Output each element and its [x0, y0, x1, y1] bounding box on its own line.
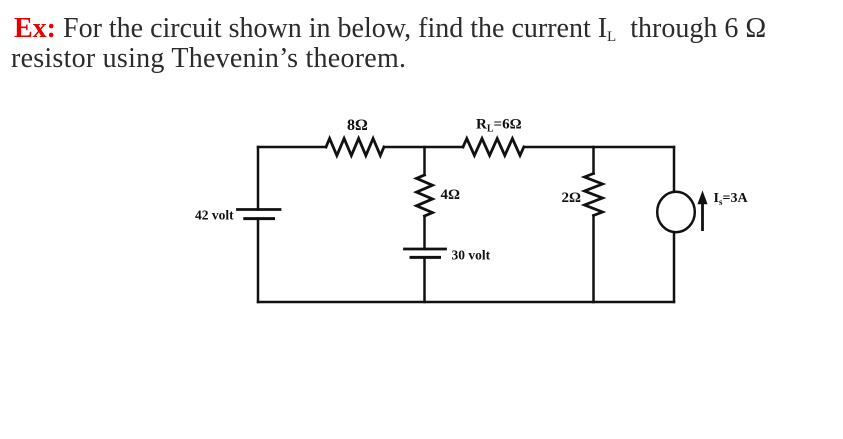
- svg-text:8Ω: 8Ω: [347, 117, 368, 134]
- svg-text:30 volt: 30 volt: [452, 248, 491, 263]
- arrow for current source Is (shaft): [701, 203, 704, 231]
- battery 30V long plate: [405, 248, 446, 251]
- svg-text:42 volt: 42 volt: [195, 208, 234, 223]
- wire 2ohm branch lower (2ohm to bottom wire): [592, 216, 595, 303]
- wire left branch upper (node A down to battery 42V): [257, 147, 260, 210]
- wire middle branch mid (4ohm to battery 30V): [423, 216, 426, 249]
- wire top-right segment (6ohm to top-right corner): [524, 146, 674, 149]
- wire bottom (full bottom rail): [258, 301, 674, 304]
- resistor 8ohm (horizontal zigzag): [326, 139, 384, 156]
- wire middle branch upper (node B down to resistor 4ohm): [423, 147, 426, 175]
- resistor RL 6ohm (horizontal zigzag): [463, 139, 524, 156]
- battery 30V short plate: [411, 256, 440, 259]
- arrow for current source Is (head): [697, 191, 707, 205]
- battery 42V long plate: [238, 208, 281, 211]
- svg-text:4Ω: 4Ω: [441, 187, 461, 203]
- svg-text:2Ω: 2Ω: [562, 190, 582, 206]
- svg-text:RL=6Ω: RL=6Ω: [476, 117, 522, 135]
- wire top-left segment (node A to resistor 8ohm): [258, 146, 326, 149]
- wire source branch upper (top-right corner down to current source): [673, 147, 676, 191]
- wire top-middle segment (8ohm to node B): [384, 146, 463, 149]
- battery 42V short plate: [245, 217, 274, 220]
- resistor 2ohm (vertical zigzag): [585, 174, 603, 216]
- resistor 4ohm (vertical zigzag): [417, 175, 433, 216]
- wire left branch lower (battery 42V to bottom wire): [257, 219, 260, 302]
- wire source branch lower (current source to bottom-right corner): [673, 234, 676, 302]
- svg-text:Is=3A: Is=3A: [714, 191, 749, 207]
- wire middle branch lower (battery 30V to bottom wire): [423, 257, 426, 302]
- current source Is (circle): [657, 192, 695, 232]
- wire 2ohm branch upper (node C down to resistor 2ohm): [592, 147, 595, 174]
